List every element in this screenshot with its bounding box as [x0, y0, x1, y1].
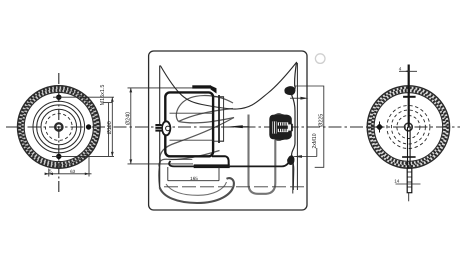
left dimension leaders: [52, 88, 193, 164]
svg-text:2xM10: 2xM10: [312, 133, 318, 148]
left bead plate line: [159, 66, 161, 188]
left view center hub: [55, 123, 62, 130]
top pinch bridge: [211, 86, 217, 94]
bellows right wavy edge: [292, 62, 297, 190]
right view dashed circle r11: [397, 116, 420, 139]
top pinch band: [192, 85, 211, 88]
right view stud upper line: [408, 65, 410, 128]
left view right bolt: [86, 124, 91, 129]
right view dashed circle r21: [387, 106, 430, 149]
piston left boss inner circle: [166, 126, 171, 131]
left view top bolt: [56, 95, 61, 100]
dim 4 line: [399, 70, 417, 72]
svg-text:Ø225: Ø225: [318, 114, 324, 127]
watermark letter u: [249, 115, 276, 194]
inner box bottom line: [168, 180, 219, 182]
dim 14 line: [396, 183, 421, 185]
right view outer circle: [367, 86, 449, 168]
left view knurl dotted row outer: [19, 87, 98, 166]
main horizontal centerline: [6, 126, 460, 128]
dim line D190: [111, 97, 113, 156]
extension line x48.8: [48, 169, 50, 177]
right cylinder edge line: [296, 63, 298, 190]
right view center hub: [405, 123, 413, 131]
center arrow to piston lip: [227, 125, 243, 128]
extension line x89: [88, 156, 90, 176]
bottom dims 5 and 63: [45, 156, 92, 176]
piston skirt line: [171, 158, 193, 160]
svg-text:5: 5: [49, 169, 52, 174]
svg-text:M16x1.5: M16x1.5: [100, 85, 106, 106]
piston left boss ellipse: [162, 121, 170, 135]
fitting thread rows: [278, 122, 288, 132]
piston internal line top: [170, 112, 213, 114]
piston body: [165, 92, 213, 156]
watermark small circle: [315, 54, 325, 64]
leader from bottom bolt: [52, 155, 114, 157]
leader from top bolt: [53, 96, 114, 98]
left view knurl underlay: [21, 89, 97, 165]
svg-text:63: 63: [70, 169, 76, 174]
arrowheads 5/63: [45, 173, 89, 176]
bellows bottom line: [169, 159, 290, 167]
arrow at box edge: [300, 97, 308, 100]
piston internal line bottom: [170, 139, 213, 141]
svg-text:165: 165: [190, 176, 198, 181]
extension top for D240: [128, 87, 194, 89]
right view dashed circle r17: [391, 110, 425, 144]
bottom pinch band: [194, 164, 230, 168]
bottom leader 2xM10: [294, 156, 317, 158]
top clamp crimp: [284, 86, 295, 95]
left view outer circle: [18, 86, 101, 169]
left view circle r17: [41, 109, 77, 145]
bottom clamp crimp: [287, 155, 294, 165]
piston foot right: [212, 156, 229, 165]
arrow to bottom clamp: [294, 155, 302, 158]
piston lip plate: [219, 97, 223, 141]
dashed reference line: [164, 186, 305, 188]
right view knurl underlay: [371, 89, 446, 164]
right view stud lower twin lines: [407, 127, 409, 168]
left view knurled ring inner edge: [24, 92, 93, 161]
dim line D240: [130, 88, 132, 164]
left view circle r25: [33, 101, 85, 153]
fitting stud end: [288, 124, 291, 130]
M16 leader vertical: [108, 103, 110, 157]
left view bottom bolt: [56, 154, 61, 159]
top extension with corner: [294, 86, 324, 167]
left view circle r22: [37, 105, 81, 149]
M16 leader tick: [103, 102, 112, 104]
outer envelope box: [149, 51, 307, 210]
left view vertical centerline: [58, 73, 60, 192]
left view knurl dotted row inner: [22, 91, 95, 164]
left stub bolt: [155, 124, 161, 132]
svg-text:Ø190: Ø190: [107, 121, 113, 134]
air fitting hatched block: [269, 113, 293, 140]
dim line 5/63: [45, 173, 92, 175]
svg-text:Ø240: Ø240: [126, 112, 132, 125]
right view stud bottom rectangle: [407, 168, 412, 193]
bellows top meniscus curve: [160, 62, 296, 109]
right view bolt tick bottom: [402, 156, 416, 158]
right view lower centerline: [408, 193, 410, 202]
right view ring inner edge: [374, 93, 443, 162]
right view knurl rows: [369, 88, 448, 167]
piston lip connectors: [213, 96, 224, 98]
inner box vertical left: [167, 167, 169, 181]
right view left port diamond: [376, 123, 383, 130]
right view bolt tick top: [403, 96, 416, 98]
bellows hem below clamp: [292, 165, 294, 194]
arrows for D240: [129, 88, 132, 164]
inner box vertical right: [218, 167, 220, 181]
fitting slot: [272, 121, 276, 133]
left view dashed bolt circle: [45, 114, 72, 141]
extension bottom for D240: [128, 163, 194, 165]
top arrow leader: [290, 97, 305, 99]
svg-text:4: 4: [399, 66, 402, 71]
arrows for D190: [111, 97, 114, 156]
svg-text:14: 14: [394, 179, 400, 184]
watermark letter S: [159, 96, 234, 203]
